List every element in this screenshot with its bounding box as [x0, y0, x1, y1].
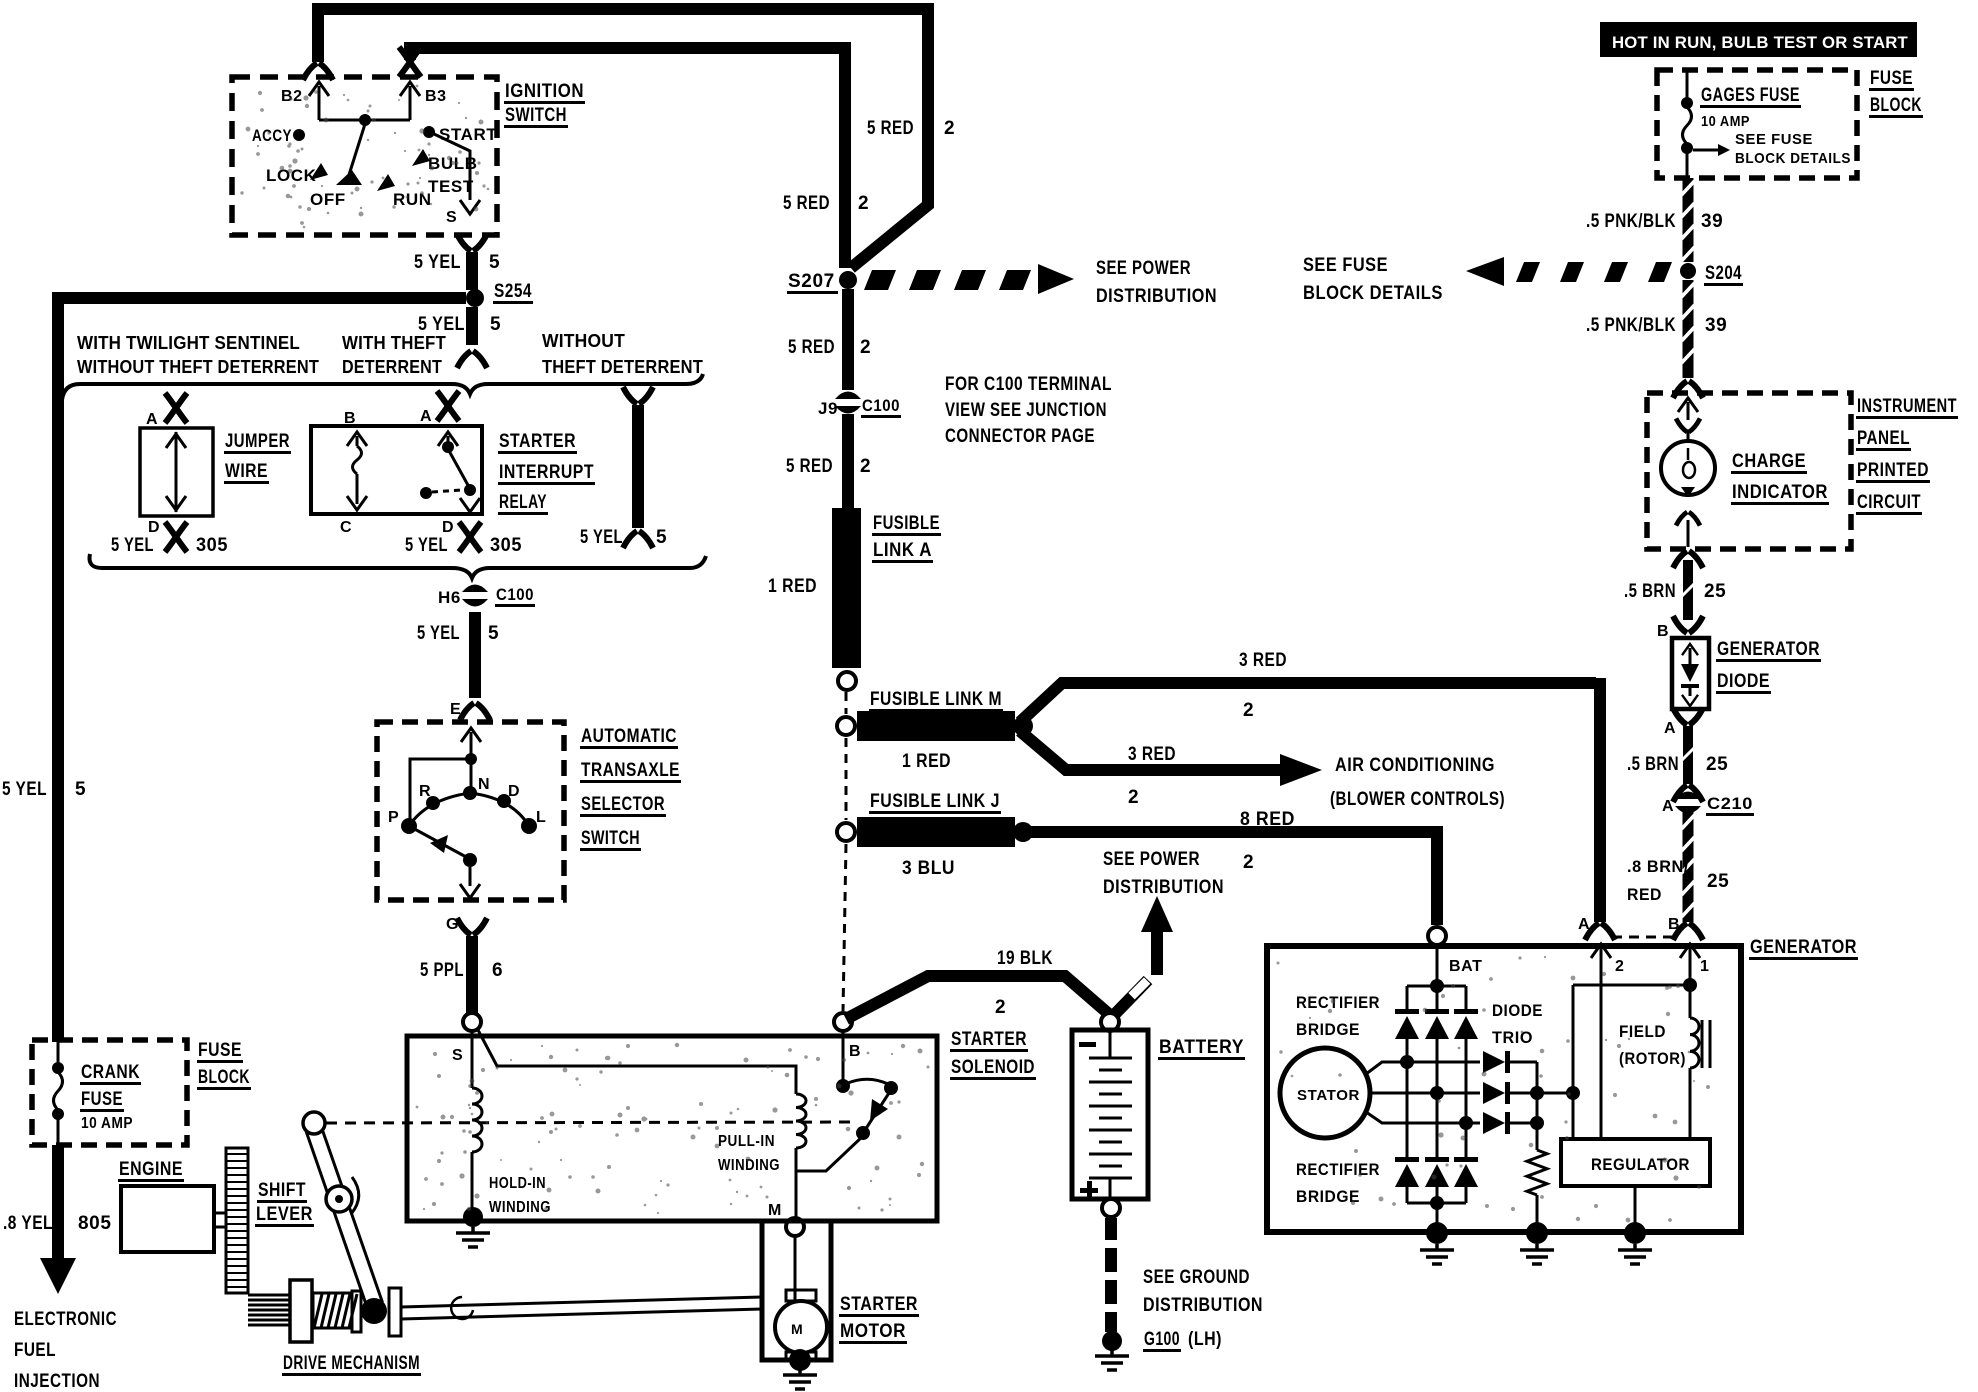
svg-text:WITH TWILIGHT SENTINEL: WITH TWILIGHT SENTINEL [77, 333, 300, 353]
svg-text:TRIO: TRIO [1492, 1028, 1533, 1047]
svg-text:2: 2 [1615, 958, 1625, 975]
wire C210 to generator 1 (.8 BRN/RED) [1683, 812, 1694, 922]
svg-text:FUSIBLE LINK M: FUSIBLE LINK M [870, 689, 1002, 710]
wire fuse to S204 (.5 PNK/BLK) [1683, 178, 1694, 262]
svg-text:BAT: BAT [1449, 958, 1483, 975]
battery positive to ground [1102, 1199, 1120, 1217]
svg-text:RELAY: RELAY [499, 492, 547, 513]
relay dashed link [420, 487, 432, 499]
battery [1072, 1030, 1148, 1199]
svg-text:C100: C100 [496, 585, 534, 604]
svg-text:S207: S207 [788, 271, 835, 292]
wire C100 to fusible link A (5 RED) [842, 414, 854, 508]
connector relay terminal D [459, 522, 481, 552]
svg-text:2: 2 [1243, 700, 1254, 721]
wire solenoid B to battery (19 BLK) [846, 976, 1110, 1019]
svg-text:BLOCK: BLOCK [1870, 95, 1922, 116]
svg-text:AIR CONDITIONING: AIR CONDITIONING [1335, 755, 1495, 776]
svg-text:2: 2 [860, 456, 871, 477]
svg-text:N: N [478, 776, 490, 793]
svg-text:AUTOMATIC: AUTOMATIC [581, 726, 677, 747]
jumper wire box [140, 428, 213, 516]
svg-text:STARTER: STARTER [951, 1029, 1027, 1050]
svg-text:STARTER: STARTER [499, 431, 576, 452]
wire S204 to instrument panel (.5 PNK/BLK) [1683, 280, 1694, 378]
svg-text:TEST: TEST [428, 177, 474, 196]
svg-text:CHARGE: CHARGE [1732, 451, 1806, 472]
wire S207 to C100 (5 RED) [842, 289, 854, 390]
slip rings [1701, 1020, 1704, 1068]
svg-text:(ROTOR): (ROTOR) [1619, 1049, 1686, 1068]
svg-text:STATOR: STATOR [1297, 1087, 1360, 1104]
svg-text:GENERATOR: GENERATOR [1750, 937, 1857, 958]
svg-text:H6: H6 [438, 588, 461, 607]
svg-text:A: A [1578, 916, 1590, 933]
svg-text:1 RED: 1 RED [902, 751, 951, 772]
svg-text:25: 25 [1704, 581, 1726, 602]
svg-text:(LH): (LH) [1188, 1329, 1222, 1350]
svg-text:BATTERY: BATTERY [1159, 1037, 1244, 1058]
svg-text:39: 39 [1701, 211, 1723, 232]
svg-text:FUSIBLE LINK J: FUSIBLE LINK J [870, 791, 1000, 812]
shift lever pivot top [303, 1112, 325, 1134]
svg-text:PULL-IN: PULL-IN [718, 1133, 775, 1150]
svg-text:5 YEL: 5 YEL [405, 535, 448, 556]
starter solenoid box [407, 1036, 937, 1221]
selector input wire [461, 728, 481, 742]
svg-text:INSTRUMENT: INSTRUMENT [1857, 396, 1957, 417]
svg-text:P: P [388, 809, 399, 826]
jumper wire element [175, 432, 178, 512]
svg-text:S: S [452, 1047, 463, 1064]
svg-text:.5 PNK/BLK: .5 PNK/BLK [1586, 315, 1676, 336]
svg-text:HOLD-IN: HOLD-IN [489, 1175, 546, 1192]
svg-text:TRANSAXLE: TRANSAXLE [581, 760, 680, 781]
svg-text:STARTER: STARTER [840, 1294, 918, 1315]
svg-text:INJECTION: INJECTION [14, 1371, 100, 1392]
wire S254 down (5 YEL) [466, 307, 478, 345]
svg-text:2: 2 [944, 118, 955, 139]
field feed wire [1572, 985, 1575, 1139]
lower brace [90, 554, 707, 578]
svg-text:WITHOUT: WITHOUT [542, 331, 625, 351]
svg-text:SEE FUSE: SEE FUSE [1303, 255, 1388, 276]
svg-text:FUSE: FUSE [81, 1089, 123, 1110]
svg-text:.5 BRN: .5 BRN [1627, 754, 1679, 775]
svg-text:SOLENOID: SOLENOID [951, 1057, 1035, 1078]
svg-text:SHIFT: SHIFT [258, 1180, 306, 1201]
svg-text:M: M [768, 1202, 782, 1219]
stator [1280, 1048, 1370, 1138]
svg-text:.8 BRN/: .8 BRN/ [1627, 857, 1689, 876]
svg-text:DRIVE MECHANISM: DRIVE MECHANISM [283, 1353, 420, 1374]
svg-text:A: A [1664, 720, 1676, 737]
svg-text:A: A [1662, 798, 1674, 815]
instrument panel printed circuit box [1647, 393, 1851, 549]
drive rod to starter motor [401, 1297, 762, 1307]
svg-text:JUMPER: JUMPER [225, 431, 290, 452]
svg-text:8 RED: 8 RED [1240, 809, 1295, 830]
svg-text:5: 5 [488, 623, 499, 644]
svg-text:WINDING: WINDING [489, 1199, 551, 1216]
svg-text:DISTRIBUTION: DISTRIBUTION [1143, 1295, 1263, 1316]
svg-text:10 AMP: 10 AMP [1701, 113, 1750, 130]
solenoid switch [842, 1031, 845, 1082]
svg-text:25: 25 [1707, 871, 1729, 892]
solenoid terminal M wire [795, 1172, 798, 1218]
svg-text:DIODE: DIODE [1492, 1001, 1543, 1020]
svg-text:MOTOR: MOTOR [840, 1321, 906, 1342]
svg-text:3 BLU: 3 BLU [902, 858, 955, 879]
svg-text:305: 305 [196, 535, 228, 556]
svg-text:E: E [450, 701, 461, 718]
svg-text:LEVER: LEVER [256, 1204, 313, 1225]
wire H6 to E (5 YEL) [469, 612, 481, 698]
svg-text:305: 305 [490, 535, 522, 556]
wire to generator diode (.5 BRN) [1673, 551, 1703, 568]
terminal 2 arrow [1591, 944, 1611, 958]
svg-text:FIELD: FIELD [1619, 1022, 1666, 1041]
svg-text:FOR C100 TERMINAL: FOR C100 TERMINAL [945, 374, 1112, 395]
crank fuse block box [32, 1040, 187, 1145]
BAT bus [1436, 945, 1439, 986]
svg-text:ACCY: ACCY [252, 126, 292, 145]
shift lever pivot mid [326, 1186, 352, 1212]
wire START to S terminal [434, 134, 470, 200]
battery negative terminal [1101, 1013, 1119, 1031]
svg-text:RECTIFIER: RECTIFIER [1296, 993, 1380, 1012]
svg-text:S: S [446, 209, 457, 226]
svg-text:INDICATOR: INDICATOR [1732, 482, 1828, 503]
upper brace [62, 374, 703, 400]
ignition switch box [232, 77, 497, 235]
connector C100 terminal J9 [835, 392, 861, 414]
arrow see fuse block details [1693, 149, 1720, 152]
dashed wire to solenoid B [845, 692, 848, 714]
svg-text:39: 39 [1705, 315, 1727, 336]
solenoid ground [463, 1207, 483, 1227]
svg-text:5 YEL: 5 YEL [417, 623, 460, 644]
dashed arrow to fuse block details [1466, 257, 1672, 286]
svg-text:SWITCH: SWITCH [505, 105, 567, 126]
wire battery feed to ignition B2 (thick outer) [318, 9, 922, 62]
svg-text:FUSIBLE: FUSIBLE [873, 513, 940, 534]
rectifier bridge lower diodes [1395, 1157, 1419, 1187]
wire link M to generator A (3 RED) [1020, 683, 1596, 722]
svg-text:5: 5 [490, 314, 501, 335]
svg-text:B: B [1657, 623, 1669, 640]
transaxle selector switch box [377, 722, 564, 900]
gages fuse [1686, 72, 1689, 99]
terminal B2 [309, 82, 329, 96]
wire link J to generator BAT (8 RED) [1030, 832, 1437, 925]
selector contact arc [409, 793, 529, 826]
svg-text:OFF: OFF [310, 190, 346, 209]
svg-text:5: 5 [489, 252, 500, 273]
svg-text:D: D [508, 783, 520, 800]
svg-text:2: 2 [995, 997, 1006, 1018]
svg-text:RECTIFIER: RECTIFIER [1296, 1160, 1380, 1179]
solenoid terminal B [834, 1013, 852, 1031]
relay contact from A [438, 432, 458, 446]
svg-text:PRINTED: PRINTED [1857, 460, 1929, 481]
svg-text:(BLOWER CONTROLS): (BLOWER CONTROLS) [1330, 789, 1505, 810]
svg-text:BRIDGE: BRIDGE [1296, 1020, 1360, 1039]
svg-text:CIRCUIT: CIRCUIT [1857, 492, 1921, 513]
svg-text:R: R [419, 783, 431, 800]
crank fuse [57, 1042, 60, 1064]
svg-text:DISTRIBUTION: DISTRIBUTION [1103, 877, 1224, 898]
mechanical linkage dashed line [326, 1122, 858, 1123]
svg-text:VIEW SEE JUNCTION: VIEW SEE JUNCTION [945, 400, 1107, 421]
svg-text:SEE POWER: SEE POWER [1103, 849, 1200, 870]
svg-text:2: 2 [1128, 787, 1139, 808]
svg-text:5 YEL: 5 YEL [414, 252, 461, 273]
svg-text:5 YEL: 5 YEL [580, 527, 623, 548]
svg-text:FUSE: FUSE [1870, 68, 1913, 89]
svg-text:5 RED: 5 RED [783, 193, 830, 214]
fusible link A [832, 508, 861, 668]
svg-text:5 YEL: 5 YEL [2, 779, 47, 800]
svg-text:B2: B2 [281, 88, 303, 105]
drive ball joint [361, 1298, 387, 1324]
svg-text:ELECTRONIC: ELECTRONIC [14, 1309, 117, 1330]
connector jumper terminal A [165, 393, 187, 423]
splice S207 [839, 271, 857, 289]
contact D [497, 794, 511, 808]
contact L [521, 818, 537, 834]
svg-text:B: B [1668, 916, 1680, 933]
splice S204 [1680, 263, 1696, 279]
svg-text:1 RED: 1 RED [768, 576, 817, 597]
svg-text:SELECTOR: SELECTOR [581, 794, 665, 815]
starter motor [794, 1236, 797, 1300]
svg-text:B: B [849, 1043, 861, 1060]
splice S254 [466, 289, 484, 307]
connector C100 terminal H6 [462, 585, 488, 607]
relay coil B-C [347, 432, 367, 446]
svg-text:5: 5 [75, 779, 86, 800]
svg-text:DIODE: DIODE [1717, 671, 1770, 692]
relay D arrow [460, 498, 480, 512]
svg-text:BLOCK DETAILS: BLOCK DETAILS [1303, 283, 1443, 304]
svg-text:5: 5 [656, 527, 667, 548]
svg-text:DETERRENT: DETERRENT [342, 357, 442, 377]
svg-text:D: D [442, 519, 454, 536]
stator phase wires [1366, 1062, 1407, 1074]
svg-text:D: D [148, 519, 160, 536]
svg-text:.5 BRN: .5 BRN [1624, 581, 1676, 602]
shift lever arm [306, 1126, 382, 1307]
svg-text:S204: S204 [1705, 263, 1742, 284]
svg-text:INTERRUPT: INTERRUPT [499, 462, 594, 483]
ignition rotor contact [348, 124, 365, 178]
contact N [463, 786, 477, 800]
svg-text:A: A [146, 411, 158, 428]
scan speckle solenoid box [416, 1043, 930, 1214]
relay armature [448, 449, 469, 487]
svg-text:IGNITION: IGNITION [505, 81, 584, 102]
scan speckle ignition box [240, 85, 489, 229]
svg-text:805: 805 [78, 1213, 112, 1234]
wire G to solenoid S (5 PPL) [457, 918, 487, 935]
regulator ground [1634, 1186, 1637, 1232]
svg-text:GENERATOR: GENERATOR [1717, 639, 1820, 660]
svg-text:A: A [420, 408, 432, 425]
svg-text:10 AMP: 10 AMP [81, 1115, 133, 1132]
contact P [401, 818, 417, 834]
starter motor enclosure [762, 1221, 831, 1360]
svg-text:SEE GROUND: SEE GROUND [1143, 1267, 1250, 1288]
svg-text:5 YEL: 5 YEL [111, 535, 154, 556]
generator ground 1 [1426, 1222, 1448, 1244]
svg-text:6: 6 [492, 960, 503, 981]
wire without-theft branch (5 YEL) [623, 387, 653, 404]
generator diode [1672, 638, 1709, 709]
svg-text:BLOCK: BLOCK [198, 1067, 250, 1088]
svg-text:5 RED: 5 RED [788, 337, 835, 358]
svg-text:2: 2 [1243, 852, 1254, 873]
regulator box [1561, 1139, 1710, 1186]
svg-text:1: 1 [1700, 958, 1710, 975]
svg-text:B3: B3 [425, 88, 447, 105]
svg-text:WIRE: WIRE [225, 461, 268, 482]
wire S254 branch left to EFI (5 YEL) [58, 298, 466, 1042]
svg-text:.5 PNK/BLK: .5 PNK/BLK [1586, 211, 1676, 232]
wire B2-B3 link [319, 119, 410, 122]
svg-text:C100: C100 [862, 396, 900, 415]
svg-text:CRANK: CRANK [81, 1062, 140, 1083]
fuse block box [1657, 70, 1857, 178]
svg-text:M: M [791, 1321, 803, 1337]
svg-text:J9: J9 [818, 399, 838, 418]
svg-text:25: 25 [1706, 754, 1728, 775]
wire ignition B3 feed (thick inner) [410, 48, 845, 60]
generator box [1267, 946, 1741, 1232]
svg-text:S254: S254 [494, 281, 532, 302]
svg-text:SWITCH: SWITCH [581, 828, 640, 849]
scan speckle generator box [1277, 956, 1711, 1223]
drive mechanism [248, 1294, 290, 1297]
svg-text:3 RED: 3 RED [1239, 650, 1287, 671]
svg-text:FUSE: FUSE [198, 1040, 242, 1061]
engine box [121, 1186, 214, 1252]
svg-text:HOT IN RUN, BULB TEST OR START: HOT IN RUN, BULB TEST OR START [1612, 33, 1908, 52]
trio resistor [1527, 1150, 1547, 1195]
starter motor ground [789, 1349, 811, 1371]
banner HOT IN RUN BULB TEST OR START [1600, 22, 1917, 57]
wire link M to air conditioning (3 RED) [1020, 731, 1282, 770]
connector relay terminal A [437, 391, 459, 421]
terminal BAT [1428, 927, 1446, 945]
gear rack [226, 1148, 248, 1293]
svg-text:PANEL: PANEL [1857, 428, 1910, 449]
rectifier bridge upper diodes [1406, 986, 1409, 1009]
svg-text:L: L [536, 809, 546, 826]
svg-text:CONNECTOR PAGE: CONNECTOR PAGE [945, 426, 1095, 447]
solenoid terminal S [463, 1013, 481, 1031]
drive flange [389, 1288, 401, 1336]
connector C210 [1675, 792, 1701, 814]
contact R [426, 796, 440, 810]
svg-text:WITH THEFT: WITH THEFT [342, 333, 446, 353]
svg-text:5 PPL: 5 PPL [420, 960, 464, 981]
hold-in winding [471, 1031, 474, 1088]
dashed arrow to power distribution [864, 264, 1074, 294]
terminal 1 arrow [1680, 944, 1700, 958]
selector rotor [409, 826, 468, 858]
wire crank fuse to EFI (.8 YEL) [52, 1145, 64, 1262]
svg-text:BRIDGE: BRIDGE [1296, 1187, 1360, 1206]
svg-text:2: 2 [858, 193, 869, 214]
dashed connector line [1612, 936, 1677, 939]
svg-text:FUEL: FUEL [14, 1340, 56, 1361]
diode trio [1407, 1061, 1480, 1064]
svg-text:SEE POWER: SEE POWER [1096, 258, 1191, 279]
svg-text:19 BLK: 19 BLK [997, 948, 1053, 969]
field rotor coil [1689, 985, 1692, 1018]
selector feed to P [410, 759, 471, 822]
svg-text:BLOCK DETAILS: BLOCK DETAILS [1735, 150, 1851, 167]
svg-text:3 RED: 3 RED [1128, 744, 1176, 765]
svg-text:ENGINE: ENGINE [119, 1159, 183, 1180]
terminal B3 [400, 82, 420, 96]
svg-text:G100: G100 [1144, 1329, 1180, 1350]
svg-text:5 RED: 5 RED [867, 118, 914, 139]
svg-text:REGULATOR: REGULATOR [1591, 1155, 1690, 1174]
wire ignition S to S254 (5 YEL) [457, 234, 487, 251]
starter interrupt relay box [311, 426, 482, 514]
link A lower circle [838, 672, 856, 690]
svg-text:LINK A: LINK A [873, 540, 932, 561]
pull-in winding feed [478, 1030, 796, 1094]
svg-text:C210: C210 [1707, 794, 1753, 813]
svg-text:GAGES FUSE: GAGES FUSE [1701, 85, 1800, 106]
svg-text:SEE FUSE: SEE FUSE [1735, 131, 1813, 148]
svg-text:5 YEL: 5 YEL [418, 314, 465, 335]
svg-text:2: 2 [860, 337, 871, 358]
svg-text:RUN: RUN [393, 190, 432, 209]
svg-text:LOCK: LOCK [266, 166, 317, 185]
svg-text:C: C [340, 519, 352, 536]
arrow to power distribution 2 [1113, 980, 1148, 1016]
generator ground 2 [1526, 1222, 1548, 1244]
svg-text:RED: RED [1627, 885, 1662, 904]
svg-text:5 RED: 5 RED [786, 456, 833, 477]
charge indicator bulb [1678, 398, 1698, 412]
svg-text:THEFT DETERRENT: THEFT DETERRENT [542, 357, 703, 377]
svg-text:WITHOUT THEFT DETERRENT: WITHOUT THEFT DETERRENT [77, 357, 319, 377]
svg-text:.8 YEL: .8 YEL [3, 1213, 53, 1234]
svg-text:DISTRIBUTION: DISTRIBUTION [1096, 286, 1217, 307]
